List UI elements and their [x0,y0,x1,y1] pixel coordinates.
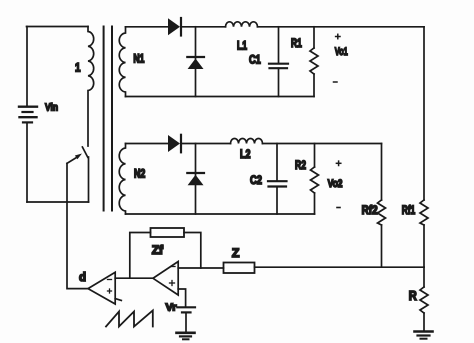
svg-text:Zf: Zf [152,243,164,257]
op-amp U1 (PWM comparator) [88,272,115,304]
svg-text:Vin: Vin [45,102,58,114]
svg-text:N2: N2 [134,169,145,181]
svg-text:R: R [409,289,417,303]
diode D4 (freewheeling, output 2) [187,173,204,185]
wire top rail 2 after D3 [182,143,231,145]
reference source Vr [177,307,195,332]
wire N1 bottom rail [126,96,315,98]
transformer secondary winding N2 [119,144,125,215]
svg-text:Vo2: Vo2 [328,178,343,190]
svg-text:Vr: Vr [166,302,177,314]
capacitor C1 [269,27,288,97]
diode D2 (freewheeling, output 1) [187,57,204,69]
svg-text:C1: C1 [249,55,261,67]
wire Zf right loop [184,233,201,269]
wire bottom of input loop [27,201,89,203]
wire N2 top rail [126,143,169,145]
svg-text:d: d [79,270,86,284]
switch actuator arrow [67,154,82,164]
label + Vo1 - [336,34,340,38]
battery Vin [19,107,37,123]
wire feedback from Vo2 down to Rf2 [381,144,383,201]
wire N2 bottom rail [126,213,315,215]
wire N1 top rail [126,26,169,28]
inductor L1 [226,22,258,27]
svg-text:Z: Z [232,246,240,260]
wire switch control from comparator d [67,163,88,288]
wire switch lower lead [88,157,90,202]
wire error amp + input to Vr [178,289,185,307]
svg-text:L2: L2 [240,149,251,161]
op-amp U2 (error amplifier) [153,262,178,296]
resistor R2 [311,144,319,215]
resistor Rf1 [420,200,428,267]
svg-text:1: 1 [75,61,81,75]
wire top rail 1 after D1 [182,26,226,28]
sawtooth ramp waveform [106,311,153,327]
wire divider junction rail [255,266,425,268]
diode D3 (series, output 2) [168,135,181,153]
wire top rail 1 to corner [258,26,425,28]
transformer primary winding [88,27,94,147]
wire Zf left loop [130,233,151,279]
wire comparator ramp input stub [115,299,121,301]
switch S blade [82,147,87,157]
wire left rail lower [26,122,28,202]
wire freewheel branch 2 [195,144,197,215]
resistor Rf2 [378,200,386,267]
svg-text:R2: R2 [295,160,306,172]
svg-text:C2: C2 [250,175,262,187]
svg-text:Vo1: Vo1 [335,46,348,58]
svg-text:R1: R1 [291,38,302,50]
wire error amp inverting input to Z [178,267,223,269]
ground under R [415,332,433,339]
label + Vo2 - [336,161,340,165]
wire feedback from Vo1 down to Rf1 [423,27,425,200]
impedance Zf box [151,228,185,237]
resistor R [420,267,428,330]
capacitor C2 [268,144,287,215]
diode D1 (series, output 1) [168,18,181,36]
svg-text:N1: N1 [133,54,144,66]
wire error amp output to comparator [115,277,153,279]
impedance Z box [224,263,255,274]
wire freewheel branch 1 [195,27,197,97]
transformer core [103,27,105,211]
svg-text:Rf2: Rf2 [362,205,378,217]
resistor R1 [310,27,318,97]
wire top-left horizontal [27,26,89,28]
wire left rail upper [26,27,28,107]
svg-text:Rf1: Rf1 [402,205,416,217]
svg-text:L1: L1 [237,41,247,53]
transformer secondary winding N1 [119,27,125,97]
ground under Vr [177,333,195,340]
inductor L2 [231,139,263,144]
wire top rail 2 to Rf2 corner [263,143,382,145]
